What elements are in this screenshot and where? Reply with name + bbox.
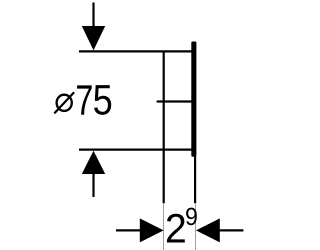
top dimension arrow tail [92,3,94,28]
bottom dimension arrowhead (up) [82,151,105,174]
thickness superscript 9 [186,208,197,226]
top dimension arrowhead (down) [82,26,105,50]
right dimension line [219,229,243,231]
right dimension arrowhead (left) [196,218,220,242]
right extension line [194,157,196,204]
bottom extension line (ø75 lower) [79,149,193,151]
ø75 dimension label: diameter symbol circle [57,95,72,111]
bottom dimension arrow tail [92,174,94,198]
ø75 dimension label: digit 7 [77,85,92,114]
faint right extension continuation [195,203,197,250]
ø75 dimension label: digit 5 [94,85,111,115]
top extension line (ø75 upper) [79,50,193,52]
left dimension arrowhead (right) [140,218,164,242]
part middle seam line [158,100,194,102]
left dimension line [116,229,141,231]
faint left extension continuation [163,203,165,250]
ø75 dimension label: diameter symbol slash [54,92,74,113]
part left edge plus extension line [163,51,165,203]
thickness label 2 [167,214,185,243]
part thick front bar [191,42,196,157]
